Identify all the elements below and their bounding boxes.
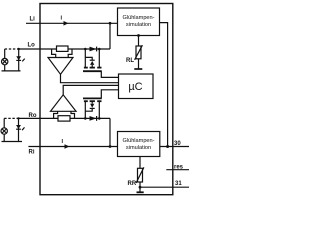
transistor Q2 channel: [84, 100, 88, 102]
resistor shunt R top: [57, 46, 69, 51]
terminal bar RL: [134, 68, 142, 70]
block uC: [119, 74, 154, 99]
svg-text:Li: Li: [30, 17, 36, 23]
transistor Q1 body diode: [85, 57, 92, 60]
wire Lo dashed external: [5, 48, 19, 50]
node junction on Li: [109, 22, 112, 25]
wire RL top lead: [138, 36, 140, 47]
wire pin 30: [160, 146, 189, 148]
svg-text:31: 31: [175, 181, 182, 187]
wire tap right top: [68, 49, 72, 58]
node 30 junction: [166, 145, 169, 148]
resistor shunt R bottom: [58, 116, 70, 121]
node Q1 right junction: [98, 48, 101, 51]
resistor RR: [138, 168, 143, 182]
transistor Q1 gate: [83, 70, 102, 72]
wire tap left bottom: [54, 111, 58, 118]
svg-text:30: 30: [174, 141, 181, 147]
wire Ro line: [19, 117, 111, 119]
wire lamp bottom lead bottom: [3, 134, 5, 141]
svg-text:Lo: Lo: [28, 43, 36, 49]
wire vertical Lo to Li: [109, 23, 111, 49]
node Q2 right junction: [98, 117, 101, 120]
wire top block right output: [160, 23, 168, 147]
transistor Q2 drain lead: [84, 102, 86, 119]
transistor Q2 body diode: [85, 109, 92, 112]
svg-text:Glühlampen-: Glühlampen-: [122, 15, 154, 21]
svg-text:RR: RR: [128, 181, 137, 187]
lamp bottom: [1, 128, 7, 134]
transistor Q1 channel: [84, 67, 88, 69]
diode D1: [90, 47, 97, 52]
block lamp simulation bottom: [118, 132, 160, 157]
wire lamp bottom lead: [4, 65, 6, 71]
wire Ro dashed external: [4, 117, 18, 119]
wire lamp top lead bottom: [3, 118, 5, 127]
arrow I top: [64, 21, 69, 26]
ground: [139, 187, 141, 192]
wire pin 31: [140, 186, 189, 188]
wire RR top lead: [139, 157, 141, 169]
node junction on Ri: [109, 145, 112, 148]
svg-text:RL: RL: [126, 58, 134, 64]
wire tap left top: [52, 49, 56, 58]
resistor RL: [136, 46, 141, 59]
wire op-amp U1 output: [61, 74, 119, 82]
wire op-amp U2 output: [63, 85, 118, 94]
op-amp U1: [48, 58, 73, 75]
svg-text:Ro: Ro: [29, 113, 37, 119]
outer box: [40, 4, 173, 195]
diode D lamp bottom: [18, 118, 20, 141]
wire tap right bottom: [71, 111, 75, 118]
svg-text:Glühlampen-: Glühlampen-: [122, 138, 154, 144]
node Q2 left junction: [84, 117, 87, 120]
svg-text:Ri: Ri: [29, 150, 35, 156]
node Q1 left junction: [84, 48, 87, 51]
transistor Q2 source lead: [98, 102, 100, 119]
lamp top: [1, 58, 7, 64]
wire Ro corner down to Ri: [109, 118, 111, 146]
block lamp simulation top: [118, 8, 160, 36]
svg-text:simulation: simulation: [126, 22, 151, 28]
wire RR bottom lead: [139, 182, 141, 187]
wire RL bottom lead: [138, 59, 140, 69]
transistor Q2 gate: [83, 97, 102, 99]
node lamp junction top: [18, 48, 20, 50]
svg-text:µC: µC: [128, 81, 142, 93]
wire pin res: [166, 169, 189, 171]
wire lamp bottom rail: [2, 141, 23, 143]
wire lamp bottom rail top: [2, 70, 21, 72]
op-amp U2: [51, 95, 77, 112]
svg-text:res: res: [174, 165, 184, 171]
diode D lamp top: [18, 49, 20, 71]
node RR junction: [139, 186, 142, 189]
wire Lo line: [19, 48, 110, 50]
svg-text:simulation: simulation: [126, 145, 151, 151]
wire Li line: [26, 22, 118, 24]
wire lamp top lead: [4, 49, 6, 58]
transistor Q1 drain lead: [84, 49, 86, 67]
diode D2: [90, 116, 97, 121]
wire Ri line: [28, 146, 117, 148]
transistor Q1 source lead: [98, 49, 100, 67]
node lamp junction bottom: [17, 117, 19, 119]
node top block bottom junction: [137, 34, 140, 37]
arrow I bottom: [65, 144, 70, 149]
